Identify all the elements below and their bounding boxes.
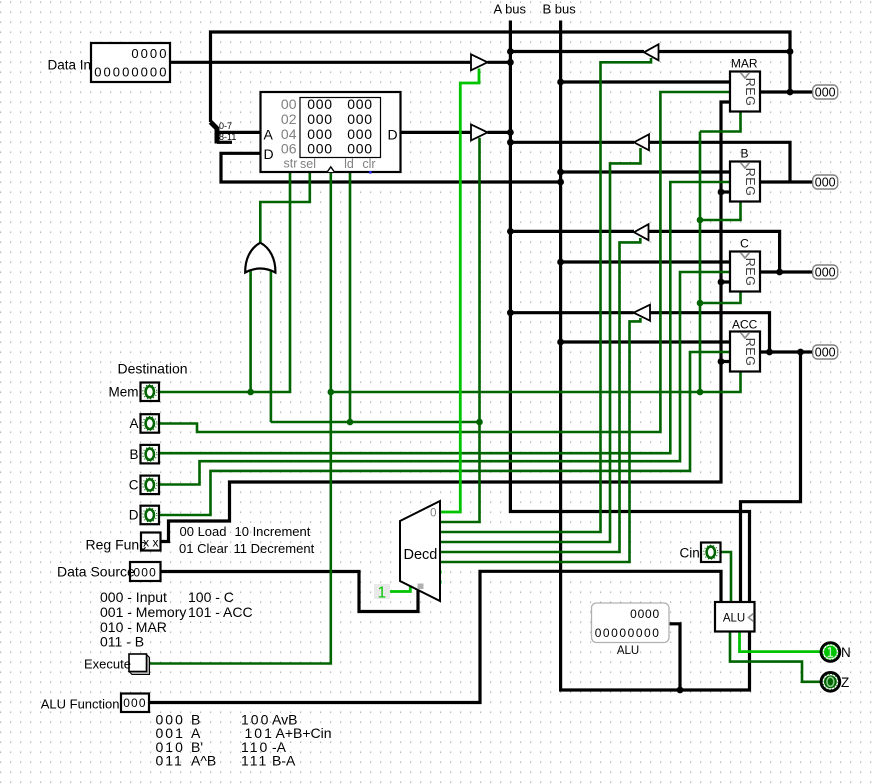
svg-text:Cin: Cin (680, 546, 700, 561)
svg-text:000: 000 (347, 111, 372, 127)
svg-text:D: D (388, 127, 398, 143)
svg-text:0: 0 (430, 508, 436, 520)
svg-text:REG: REG (743, 168, 757, 197)
svg-text:x x: x x (143, 536, 158, 550)
svg-text:Execute: Execute (84, 657, 131, 672)
svg-text:000: 000 (307, 96, 332, 112)
svg-text:02: 02 (281, 111, 297, 127)
svg-text:111: 111 (241, 753, 268, 769)
svg-text:Destination: Destination (118, 361, 188, 377)
svg-text:C: C (740, 237, 749, 251)
svg-text:00000000: 00000000 (94, 65, 168, 80)
svg-text:000: 000 (123, 696, 147, 710)
svg-text:011 - B: 011 - B (100, 634, 144, 650)
svg-text:ALU Function: ALU Function (41, 697, 120, 712)
svg-text:A: A (264, 127, 274, 143)
svg-text:0000: 0000 (131, 46, 168, 61)
svg-text:clr: clr (362, 157, 375, 171)
svg-text:101 - ACC: 101 - ACC (188, 604, 253, 620)
svg-text:8-11: 8-11 (219, 132, 236, 142)
svg-text:001 - Memory: 001 - Memory (100, 604, 186, 620)
svg-text:D: D (129, 508, 139, 523)
svg-text:000: 000 (815, 176, 836, 190)
svg-text:D: D (264, 146, 274, 162)
svg-text:Decd: Decd (404, 547, 438, 563)
svg-text:B: B (740, 147, 748, 161)
svg-text:sel: sel (300, 157, 316, 171)
svg-text:A^B: A^B (191, 753, 216, 769)
svg-text:000: 000 (133, 566, 157, 580)
svg-text:Mem: Mem (109, 385, 139, 400)
svg-text:000: 000 (815, 266, 836, 280)
svg-text:ACC: ACC (732, 318, 758, 332)
svg-text:011: 011 (156, 753, 184, 769)
svg-text:Data Source: Data Source (57, 564, 135, 580)
svg-text:Z: Z (841, 675, 849, 690)
svg-text:REG: REG (743, 258, 757, 287)
svg-text:B: B (129, 447, 138, 462)
svg-text:000: 000 (347, 96, 372, 112)
svg-text:B bus: B bus (543, 2, 577, 17)
svg-text:000: 000 (815, 346, 836, 360)
svg-text:00000000: 00000000 (595, 626, 661, 640)
svg-text:Reg Func: Reg Func (86, 537, 147, 553)
svg-text:10 Increment: 10 Increment (235, 524, 311, 539)
svg-text:REG: REG (743, 338, 757, 367)
svg-text:00 Load: 00 Load (180, 524, 227, 539)
svg-text:ALU: ALU (617, 645, 639, 657)
svg-text:000: 000 (307, 111, 332, 127)
svg-text:100 - C: 100 - C (188, 589, 234, 605)
svg-text:A: A (129, 416, 138, 431)
svg-text:ld: ld (344, 157, 354, 171)
svg-text:000: 000 (815, 86, 836, 100)
svg-text:00: 00 (281, 96, 297, 112)
svg-text:MAR: MAR (731, 57, 758, 71)
svg-text:ALU: ALU (723, 613, 745, 625)
svg-text:0-7: 0-7 (219, 121, 232, 131)
svg-text:11 Decrement: 11 Decrement (234, 541, 315, 556)
svg-text:000: 000 (347, 141, 372, 157)
svg-text:str: str (284, 157, 298, 171)
svg-text:0000: 0000 (630, 607, 660, 621)
svg-text:000: 000 (307, 141, 332, 157)
svg-text:REG: REG (743, 78, 757, 107)
svg-text:B-A: B-A (272, 753, 296, 769)
svg-text:1: 1 (377, 585, 386, 602)
svg-text:Data In: Data In (48, 58, 92, 73)
svg-text:06: 06 (281, 141, 297, 157)
svg-text:01 Clear: 01 Clear (179, 541, 229, 556)
svg-text:000 - Input: 000 - Input (100, 589, 167, 605)
svg-text:N: N (841, 645, 851, 660)
svg-text:A bus: A bus (494, 2, 527, 17)
svg-text:C: C (129, 478, 139, 493)
